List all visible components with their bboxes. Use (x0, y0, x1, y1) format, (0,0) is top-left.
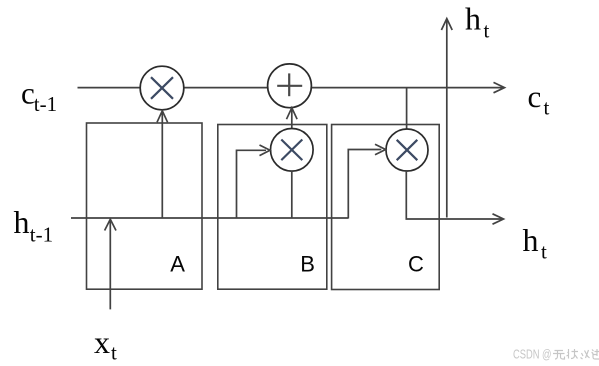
wire x_t input arrow up to h-line (105, 219, 116, 309)
svg-text:C: C (408, 252, 424, 277)
svg-text:c: c (21, 76, 35, 111)
multiply node M3 in box C (386, 129, 428, 171)
wire from c-line down into M3 top (406, 88, 408, 130)
svg-text:h: h (14, 204, 30, 240)
wire c-line right segment with arrow to c_t (311, 82, 504, 92)
svg-text:B: B (300, 252, 315, 277)
svg-text:CSDN @: CSDN @ (513, 347, 552, 362)
svg-text:x: x (94, 324, 110, 360)
label h_t top (465, 1, 490, 43)
wire arrow from box A up into M1 (157, 111, 168, 218)
label c_t-1 (21, 76, 57, 117)
add node P1 on c-line (268, 64, 312, 108)
wire h-line from h_t-1 (71, 217, 348, 219)
svg-text:h: h (465, 1, 481, 37)
label c_t (528, 79, 550, 120)
gate box B (218, 125, 327, 290)
svg-text:t: t (544, 96, 550, 120)
wire from M3 bottom down then right with arrow to h_t (406, 171, 503, 224)
multiply node M1 on c-line (140, 66, 184, 110)
svg-text:t: t (111, 341, 117, 365)
svg-text:t-1: t-1 (30, 223, 53, 247)
label h_t right (523, 222, 548, 264)
svg-text:t: t (541, 240, 547, 264)
multiply node M2 in box B (271, 129, 314, 172)
wire c-line left segment (78, 87, 141, 89)
svg-text:c: c (528, 79, 542, 114)
svg-text:t: t (484, 19, 490, 43)
svg-text:A: A (170, 252, 185, 277)
wire feed from h-line end up and right into M3 with arrow (348, 144, 385, 218)
watermark CJK glyphs 无忧必过 (553, 349, 599, 359)
wire arrow from M2 up into P1 (287, 108, 298, 129)
svg-text:h: h (523, 222, 539, 258)
label x_t (94, 324, 117, 365)
wire vertical up to h_t top with arrow (441, 19, 452, 218)
label h_t-1 (14, 204, 54, 247)
gate box A (87, 123, 203, 289)
svg-text:t-1: t-1 (34, 92, 57, 116)
wire c-line middle segment (184, 87, 268, 89)
wire from M2 bottom down to h-line (291, 171, 293, 218)
wire feed from h-line up and right into M2 with arrow (237, 145, 271, 218)
gate box C (332, 125, 440, 290)
